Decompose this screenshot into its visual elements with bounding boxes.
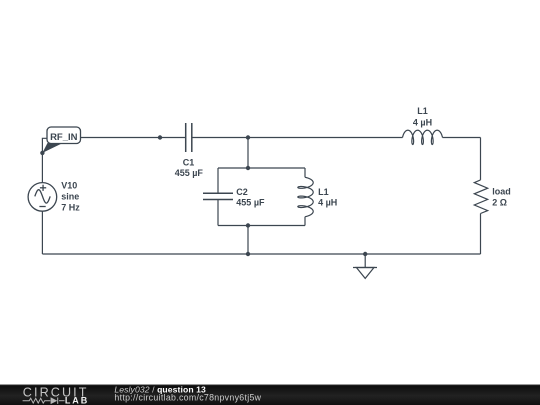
label load: [492, 186, 511, 207]
wire: [247, 138, 249, 169]
svg-text:L1: L1: [417, 106, 428, 116]
wire: [443, 137, 481, 139]
logo schematic line: [23, 398, 65, 404]
wire tank left: [217, 168, 219, 193]
label C2: [236, 187, 265, 207]
label L1 series: [413, 106, 432, 128]
resistor load: [474, 180, 487, 214]
wire tank top: [218, 167, 305, 169]
wire tank right upper: [304, 168, 306, 177]
wire: [42, 138, 47, 153]
node dot: [246, 166, 250, 170]
node dot: [158, 135, 162, 139]
svg-text:4 µH: 4 µH: [413, 117, 432, 127]
inductor L1 series: [403, 130, 443, 144]
wire tank right lower: [304, 217, 306, 226]
node dot: [246, 223, 250, 227]
svg-text:RF_IN: RF_IN: [50, 132, 78, 143]
wire: [42, 253, 480, 255]
wire: [41, 211, 43, 254]
capacitor C2: [203, 193, 233, 199]
node dot flag: [40, 151, 44, 155]
label C1: [175, 157, 204, 178]
svg-text:http://circuitlab.com/c78npvny: http://circuitlab.com/c78npvny6tj5w: [114, 392, 261, 402]
source V10: [28, 183, 57, 212]
wire: [247, 226, 249, 255]
wire tank bottom: [218, 225, 305, 227]
svg-text:C1: C1: [183, 157, 195, 167]
wire: [81, 137, 186, 139]
footer bar: [0, 385, 540, 405]
node dot: [246, 252, 250, 256]
label V10: [61, 181, 80, 213]
wire ground stub: [364, 254, 366, 268]
svg-text:LAB: LAB: [65, 395, 89, 405]
label L1 tank: [318, 187, 337, 208]
svg-text:455 µF: 455 µF: [236, 198, 265, 208]
svg-text:V10: V10: [61, 181, 77, 191]
node dot: [246, 135, 250, 139]
svg-text:sine: sine: [61, 192, 79, 202]
svg-text:4 µH: 4 µH: [318, 197, 337, 207]
wire: [41, 153, 43, 183]
ground: [353, 268, 377, 279]
node dot: [363, 252, 367, 256]
svg-text:L1: L1: [318, 187, 329, 197]
svg-text:load: load: [492, 186, 511, 196]
wire tank left lower: [217, 200, 219, 226]
svg-text:C2: C2: [236, 187, 248, 197]
capacitor C1: [186, 123, 192, 152]
wire: [480, 138, 482, 180]
wire: [192, 137, 403, 139]
svg-text:455 µF: 455 µF: [175, 168, 204, 178]
logo diode: [51, 397, 58, 404]
flag RF_IN: [42, 127, 80, 153]
svg-text:7 Hz: 7 Hz: [61, 203, 80, 213]
svg-text:2 Ω: 2 Ω: [492, 197, 507, 207]
wire: [480, 214, 482, 255]
inductor L1 tank: [298, 177, 313, 216]
